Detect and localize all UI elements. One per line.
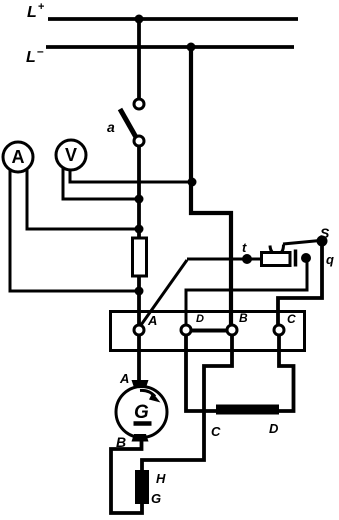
svg-text:D: D bbox=[196, 313, 204, 325]
svg-text:V: V bbox=[65, 145, 77, 165]
svg-text:+: + bbox=[38, 1, 44, 13]
svg-text:A: A bbox=[147, 313, 157, 328]
svg-text:G: G bbox=[134, 402, 149, 423]
svg-text:B: B bbox=[116, 434, 126, 450]
svg-text:A: A bbox=[12, 147, 25, 167]
svg-text:a: a bbox=[107, 119, 115, 135]
svg-text:G: G bbox=[151, 491, 161, 506]
svg-text:L: L bbox=[26, 49, 36, 66]
svg-text:t: t bbox=[242, 240, 247, 255]
svg-text:D: D bbox=[269, 421, 279, 436]
svg-text:q: q bbox=[326, 252, 334, 267]
svg-text:L: L bbox=[27, 4, 37, 21]
svg-text:B: B bbox=[239, 311, 248, 325]
svg-text:S: S bbox=[320, 225, 330, 241]
svg-text:C: C bbox=[287, 312, 296, 326]
svg-text:A: A bbox=[119, 371, 129, 386]
svg-text:H: H bbox=[156, 471, 166, 486]
svg-text:C: C bbox=[211, 424, 221, 439]
svg-text:–: – bbox=[37, 44, 44, 58]
